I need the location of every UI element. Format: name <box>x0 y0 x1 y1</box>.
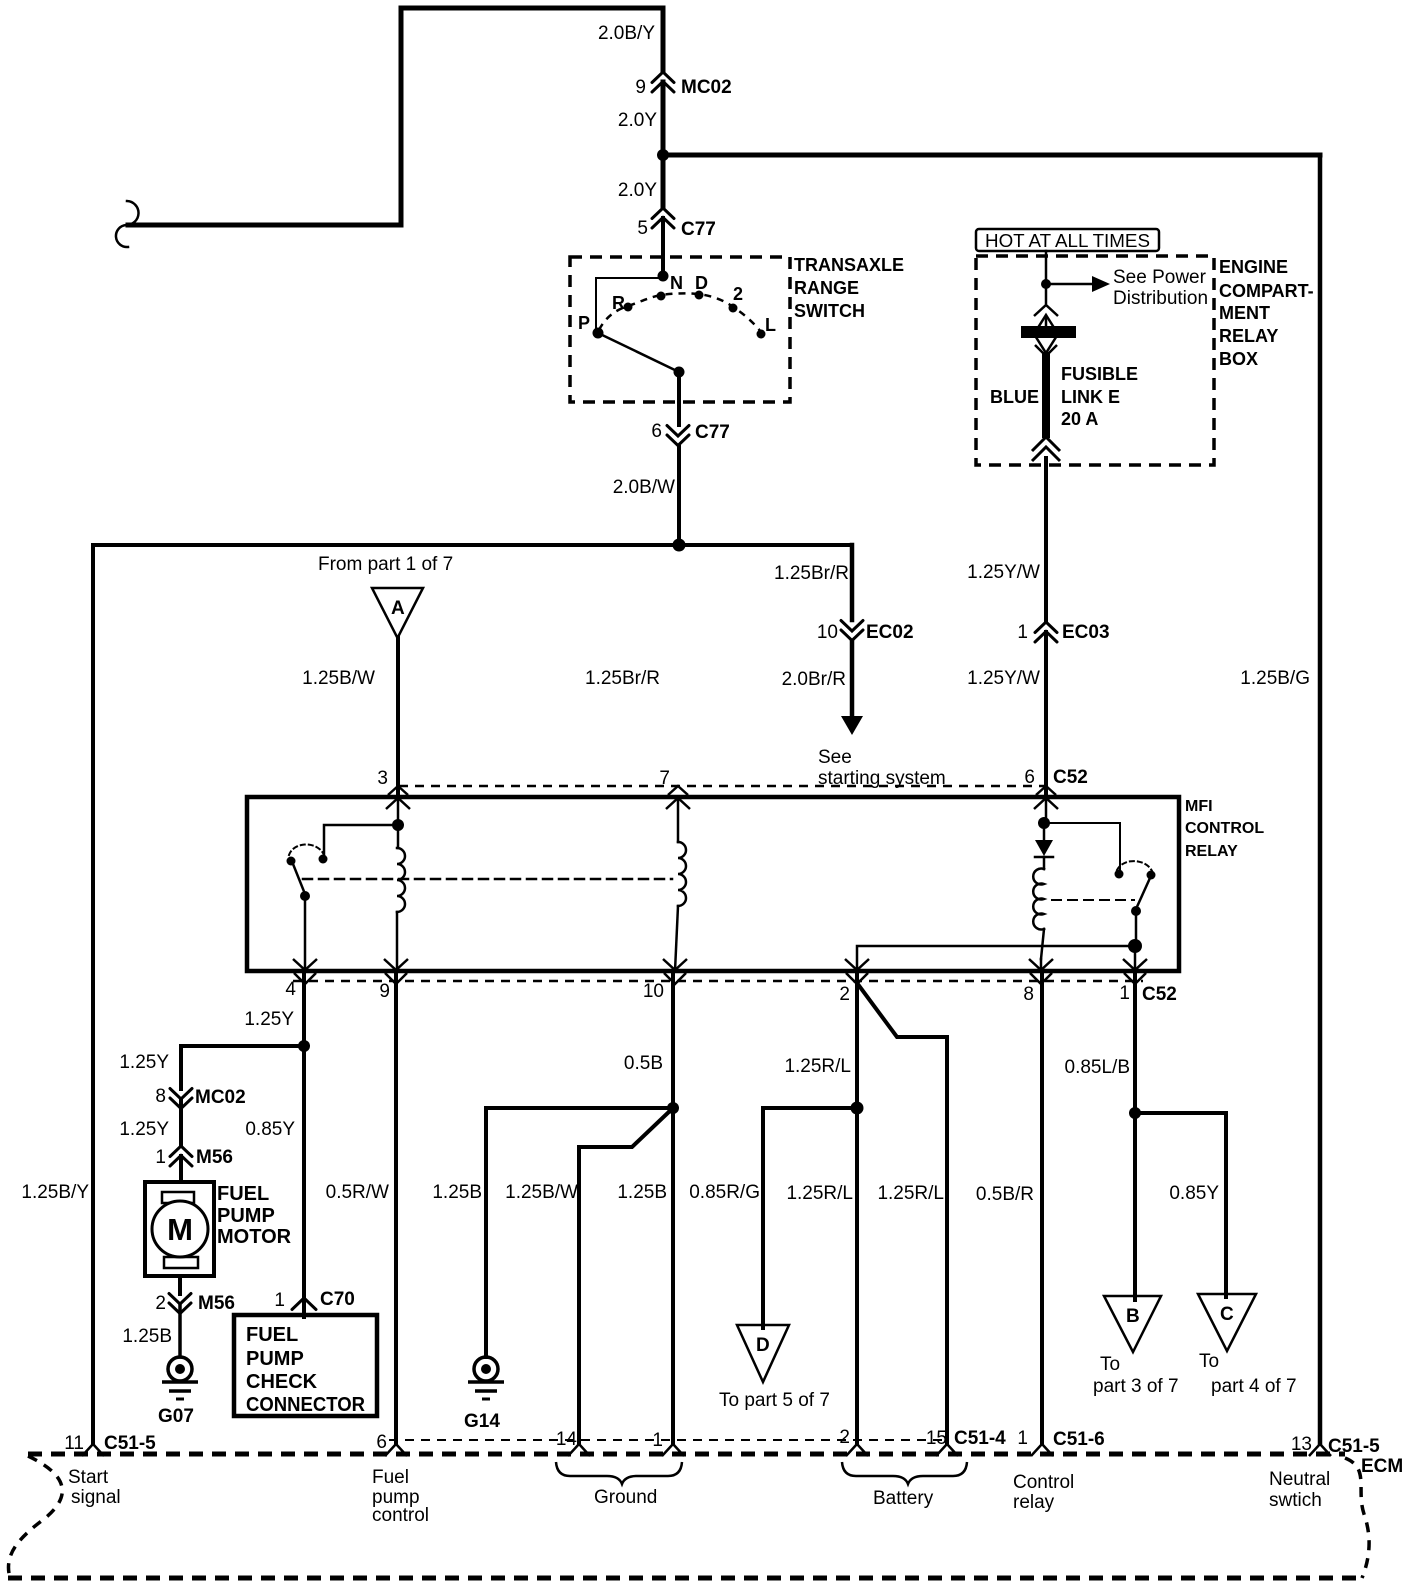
svg-text:D: D <box>756 1335 770 1356</box>
svg-text:1: 1 <box>1017 1428 1028 1449</box>
svg-text:10: 10 <box>817 622 838 643</box>
svg-text:1.25Y: 1.25Y <box>119 1052 169 1073</box>
svg-text:control: control <box>372 1505 429 1526</box>
svg-text:RANGE: RANGE <box>794 278 859 298</box>
svg-text:SWITCH: SWITCH <box>794 301 865 321</box>
svg-text:CHECK: CHECK <box>246 1371 318 1393</box>
svg-text:PUMP: PUMP <box>217 1205 275 1227</box>
svg-text:1.25R/L: 1.25R/L <box>786 1183 853 1204</box>
svg-text:relay: relay <box>1013 1492 1055 1513</box>
svg-text:1.25B/Y: 1.25B/Y <box>21 1182 89 1203</box>
svg-text:Distribution: Distribution <box>1113 288 1208 309</box>
svg-text:B: B <box>1126 1306 1140 1327</box>
svg-text:11: 11 <box>64 1433 84 1454</box>
svg-text:COMPART-: COMPART- <box>1219 281 1314 301</box>
svg-text:8: 8 <box>155 1086 166 1107</box>
svg-text:4: 4 <box>285 979 296 1000</box>
svg-text:1.25B: 1.25B <box>122 1326 172 1347</box>
svg-text:1: 1 <box>652 1430 663 1451</box>
svg-text:2.0B/Y: 2.0B/Y <box>598 23 655 44</box>
svg-text:FUEL: FUEL <box>217 1183 269 1205</box>
svg-text:1.25Br/R: 1.25Br/R <box>774 563 849 584</box>
svg-text:Control: Control <box>1013 1472 1074 1493</box>
svg-text:RELAY: RELAY <box>1185 843 1238 860</box>
svg-text:C51-5: C51-5 <box>1328 1436 1380 1457</box>
svg-text:10: 10 <box>643 981 664 1002</box>
svg-text:P: P <box>578 313 590 333</box>
svg-text:0.85R/G: 0.85R/G <box>689 1182 760 1203</box>
svg-text:MC02: MC02 <box>195 1087 246 1108</box>
svg-text:0.5B/R: 0.5B/R <box>976 1184 1034 1205</box>
svg-text:1.25B/W: 1.25B/W <box>302 668 375 689</box>
svg-text:ENGINE: ENGINE <box>1219 257 1288 277</box>
svg-text:1: 1 <box>155 1147 166 1168</box>
svg-text:M56: M56 <box>196 1147 233 1168</box>
svg-text:HOT AT ALL TIMES: HOT AT ALL TIMES <box>985 231 1150 251</box>
svg-text:1: 1 <box>1017 622 1028 643</box>
svg-text:C51-6: C51-6 <box>1053 1429 1105 1450</box>
svg-text:M: M <box>167 1212 193 1247</box>
svg-text:See: See <box>818 747 852 768</box>
svg-text:Start: Start <box>68 1467 109 1488</box>
svg-text:0.85Y: 0.85Y <box>245 1119 295 1140</box>
svg-text:EC02: EC02 <box>866 622 914 643</box>
svg-text:FUSIBLE: FUSIBLE <box>1061 364 1138 384</box>
svg-text:M56: M56 <box>198 1293 235 1314</box>
svg-text:BLUE: BLUE <box>990 387 1039 407</box>
svg-text:1.25Y: 1.25Y <box>119 1119 169 1140</box>
svg-text:0.85L/B: 0.85L/B <box>1065 1057 1131 1078</box>
svg-text:13: 13 <box>1291 1434 1312 1455</box>
svg-text:A: A <box>391 598 405 619</box>
svg-text:C52: C52 <box>1053 767 1088 788</box>
svg-text:C70: C70 <box>320 1289 355 1310</box>
svg-text:To: To <box>1100 1354 1120 1375</box>
svg-text:2: 2 <box>839 1427 850 1448</box>
svg-text:To part 5 of 7: To part 5 of 7 <box>719 1390 830 1411</box>
svg-text:RELAY: RELAY <box>1219 326 1278 346</box>
svg-text:To: To <box>1199 1351 1219 1372</box>
svg-text:MC02: MC02 <box>681 77 732 98</box>
svg-text:0.5B: 0.5B <box>624 1053 663 1074</box>
svg-text:CONNECTOR: CONNECTOR <box>246 1394 366 1416</box>
svg-text:2.0B/W: 2.0B/W <box>613 477 675 498</box>
svg-text:0.5R/W: 0.5R/W <box>326 1182 389 1203</box>
svg-text:C77: C77 <box>695 422 730 443</box>
svg-text:1.25Y/W: 1.25Y/W <box>967 668 1040 689</box>
svg-text:1: 1 <box>1119 983 1130 1004</box>
svg-text:20 A: 20 A <box>1061 409 1098 429</box>
svg-text:2.0Br/R: 2.0Br/R <box>782 669 846 690</box>
svg-text:1.25Br/R: 1.25Br/R <box>585 668 660 689</box>
svg-text:part 3 of 7: part 3 of 7 <box>1093 1376 1179 1397</box>
svg-text:G07: G07 <box>158 1406 194 1427</box>
svg-text:C52: C52 <box>1142 984 1177 1005</box>
svg-text:EC03: EC03 <box>1062 622 1110 643</box>
svg-text:signal: signal <box>71 1487 121 1508</box>
svg-text:C77: C77 <box>681 219 716 240</box>
svg-text:1.25B/W: 1.25B/W <box>505 1182 578 1203</box>
svg-text:9: 9 <box>379 981 390 1002</box>
svg-text:1.25B: 1.25B <box>432 1182 482 1203</box>
svg-text:L: L <box>765 315 776 335</box>
svg-text:starting system: starting system <box>818 768 946 789</box>
svg-text:G14: G14 <box>464 1411 500 1432</box>
svg-text:1: 1 <box>274 1290 285 1311</box>
svg-text:Fuel: Fuel <box>372 1467 409 1488</box>
svg-text:1.25B/G: 1.25B/G <box>1240 668 1310 689</box>
svg-text:C51-4: C51-4 <box>954 1428 1006 1449</box>
svg-text:PUMP: PUMP <box>246 1348 304 1370</box>
svg-text:BOX: BOX <box>1219 349 1258 369</box>
svg-text:ECM: ECM <box>1361 1456 1403 1477</box>
svg-text:15: 15 <box>926 1428 947 1449</box>
svg-text:1.25Y/W: 1.25Y/W <box>967 562 1040 583</box>
svg-text:3: 3 <box>377 768 388 789</box>
svg-text:9: 9 <box>635 77 646 98</box>
svg-text:LINK E: LINK E <box>1061 387 1120 407</box>
svg-text:C: C <box>1220 1304 1234 1325</box>
svg-text:1.25B: 1.25B <box>617 1182 667 1203</box>
svg-text:C51-5: C51-5 <box>104 1433 156 1454</box>
svg-text:2: 2 <box>733 284 743 304</box>
svg-text:2: 2 <box>155 1293 166 1314</box>
svg-text:part 4 of 7: part 4 of 7 <box>1211 1376 1297 1397</box>
svg-text:2.0Y: 2.0Y <box>618 180 657 201</box>
svg-text:FUEL: FUEL <box>246 1324 298 1346</box>
svg-text:8: 8 <box>1023 984 1034 1005</box>
svg-text:6: 6 <box>651 421 662 442</box>
svg-text:CONTROL: CONTROL <box>1185 820 1264 837</box>
svg-text:Neutral: Neutral <box>1269 1469 1330 1490</box>
svg-text:MENT: MENT <box>1219 303 1270 323</box>
svg-text:MOTOR: MOTOR <box>217 1226 292 1248</box>
svg-text:1.25R/L: 1.25R/L <box>877 1183 944 1204</box>
svg-text:swtich: swtich <box>1269 1490 1322 1511</box>
svg-text:0.85Y: 0.85Y <box>1169 1183 1219 1204</box>
svg-text:Ground: Ground <box>594 1487 657 1508</box>
svg-text:2: 2 <box>839 984 850 1005</box>
svg-text:MFI: MFI <box>1185 798 1213 815</box>
svg-text:14: 14 <box>556 1429 578 1450</box>
svg-text:See Power: See Power <box>1113 267 1207 288</box>
svg-text:Battery: Battery <box>873 1488 934 1509</box>
svg-text:5: 5 <box>637 218 648 239</box>
svg-text:D: D <box>695 273 708 293</box>
svg-text:1.25Y: 1.25Y <box>244 1009 294 1030</box>
svg-text:7: 7 <box>659 768 670 789</box>
svg-text:R: R <box>612 293 625 313</box>
svg-text:6: 6 <box>376 1432 387 1453</box>
svg-text:2.0Y: 2.0Y <box>618 110 657 131</box>
svg-text:6: 6 <box>1024 767 1035 788</box>
svg-text:From part 1 of 7: From part 1 of 7 <box>318 554 453 575</box>
svg-text:1.25R/L: 1.25R/L <box>784 1056 851 1077</box>
svg-text:TRANSAXLE: TRANSAXLE <box>794 255 904 275</box>
svg-text:N: N <box>670 273 683 293</box>
